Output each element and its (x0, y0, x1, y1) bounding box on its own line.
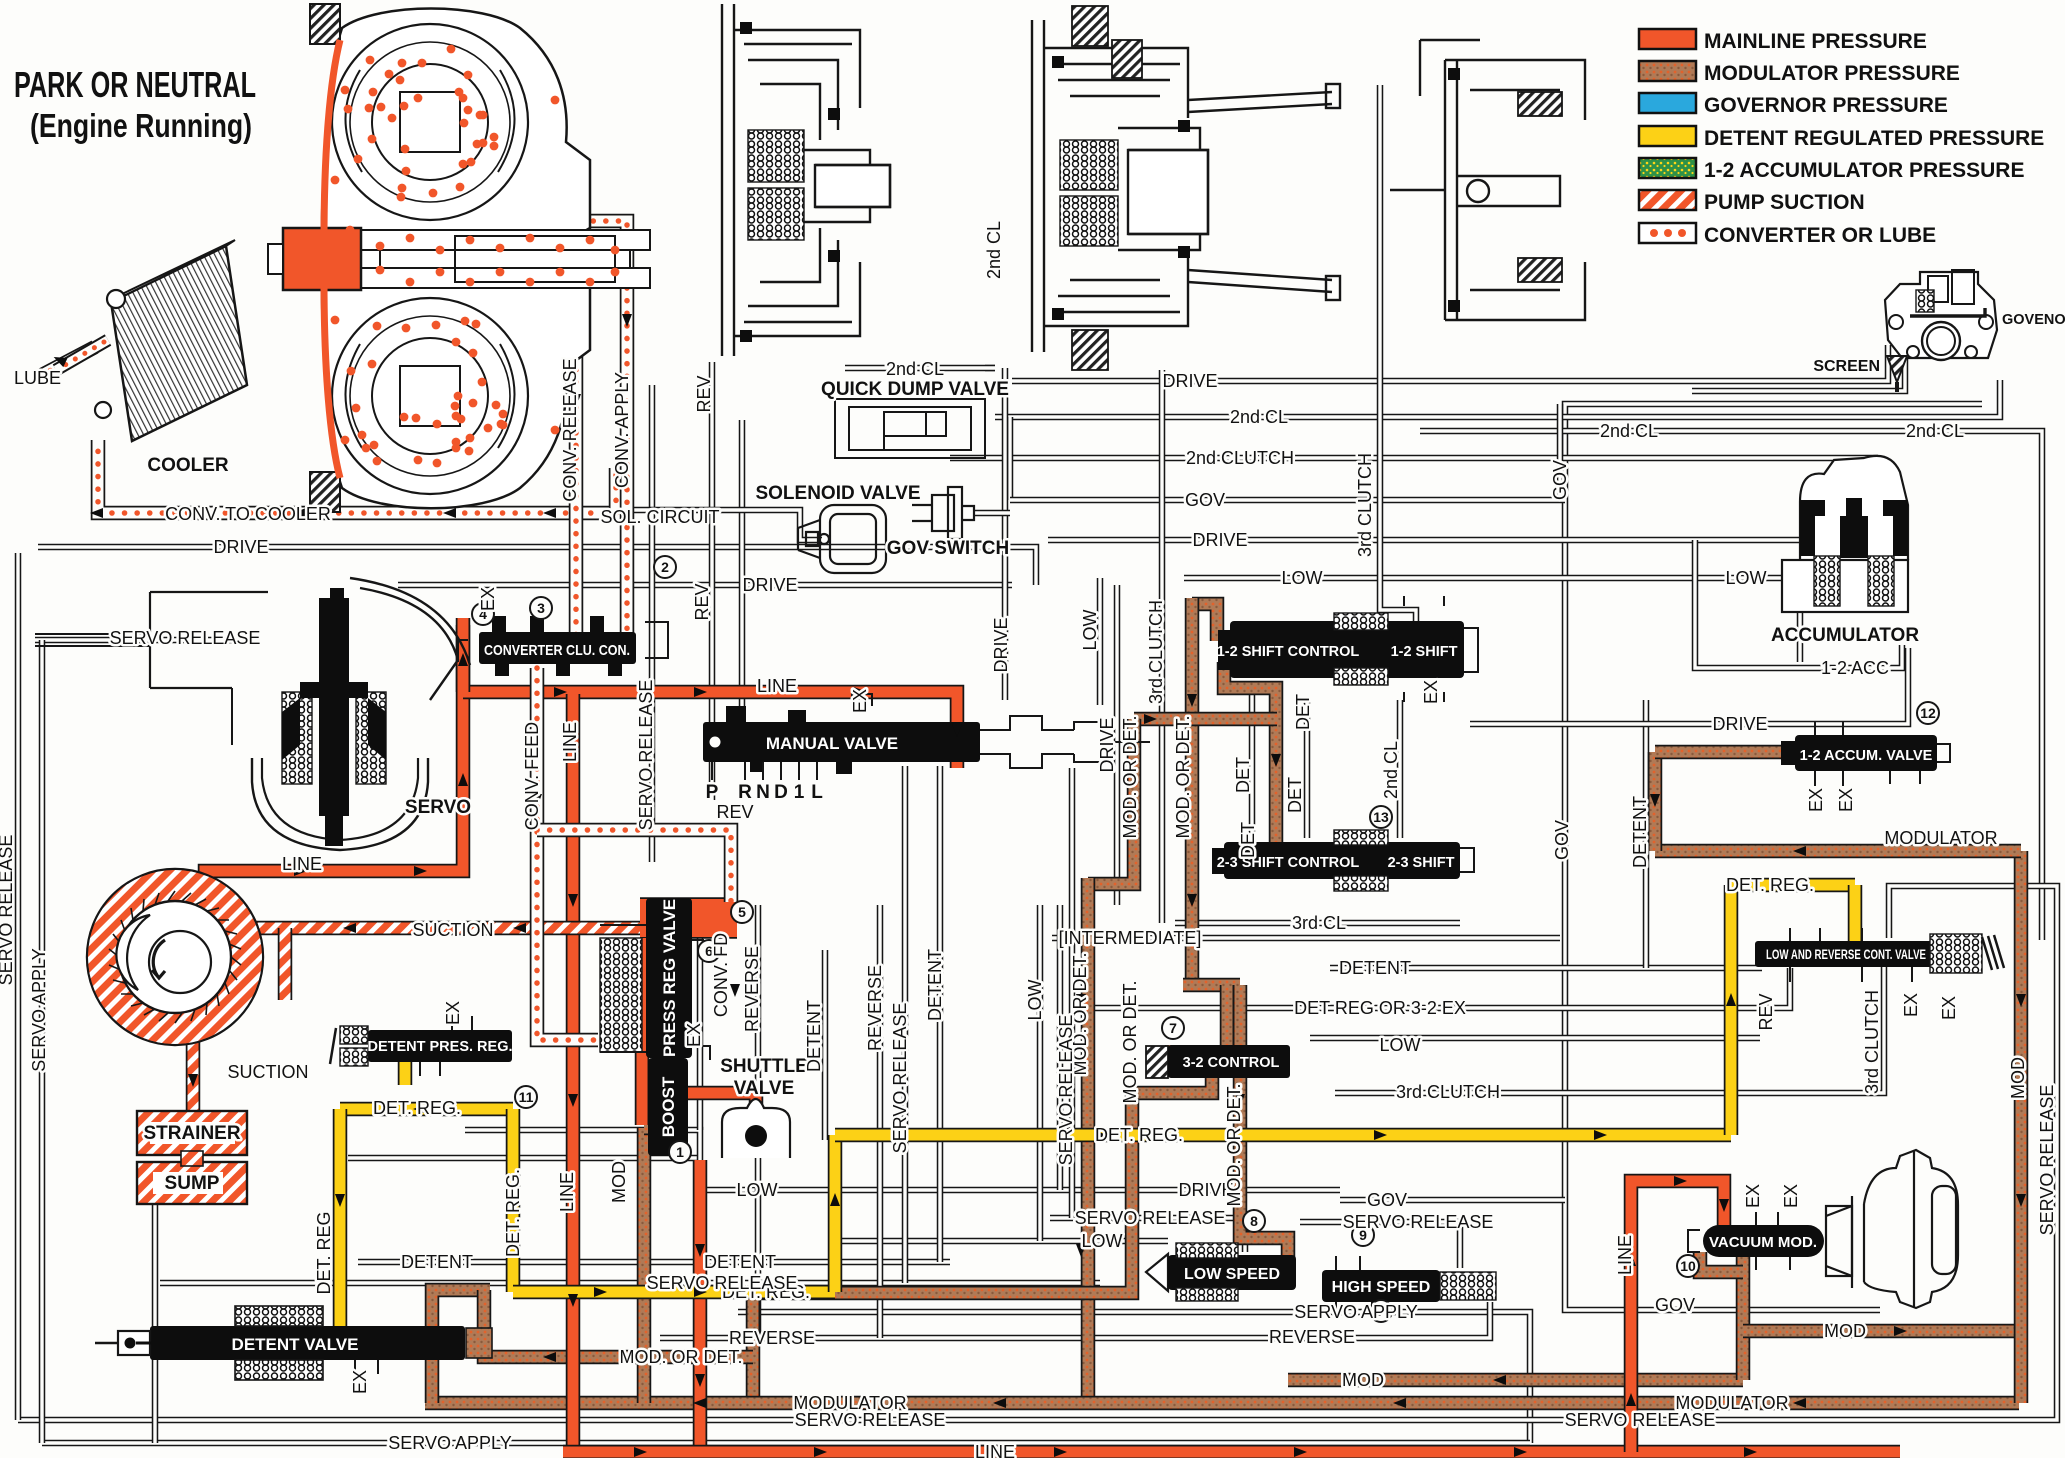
svg-text:LINE: LINE (560, 722, 580, 762)
svg-text:SUCTION: SUCTION (228, 1062, 309, 1082)
svg-text:GOV: GOV (1185, 490, 1225, 510)
wire INTERMEDIATE (1052, 935, 1560, 942)
legend swatch modulator (1639, 61, 1696, 81)
svg-text:REV: REV (1756, 993, 1776, 1030)
svg-text:1-2 SHIFT CONTROL: 1-2 SHIFT CONTROL (1217, 644, 1360, 660)
cooler radiator (56, 240, 247, 441)
wire DRIVE vert c (1114, 585, 1121, 905)
svg-text:REVERSE: REVERSE (865, 965, 885, 1051)
svg-text:SERVO: SERVO (405, 797, 471, 818)
svg-text:PARK OR NEUTRAL: PARK OR NEUTRAL (14, 64, 256, 105)
detent reg stub a (398, 1060, 413, 1085)
svg-text:DET: DET (1293, 694, 1313, 730)
svg-text:DETENT REGULATED PRESSURE: DETENT REGULATED PRESSURE (1704, 127, 2044, 150)
svg-text:LINE: LINE (757, 676, 797, 696)
mainline press reg left col (635, 938, 650, 1125)
svg-text:5: 5 (738, 904, 746, 920)
svg-text:MOD. OR DET.: MOD. OR DET. (1120, 715, 1140, 838)
svg-text:MAINLINE PRESSURE: MAINLINE PRESSURE (1704, 30, 1927, 53)
svg-text:2-3 SHIFT: 2-3 SHIFT (1388, 855, 1455, 871)
detent reg V3 (828, 1135, 843, 1292)
svg-text:SERVO RELEASE: SERVO RELEASE (1056, 1015, 1076, 1166)
title (14, 64, 256, 144)
svg-text:LINE: LINE (975, 1442, 1015, 1458)
svg-text:GOV SWITCH: GOV SWITCH (887, 538, 1009, 559)
svg-text:LOW: LOW (1379, 1035, 1420, 1055)
svg-text:MOD. OR DET.: MOD. OR DET. (1173, 715, 1193, 838)
detent reg big H (835, 1128, 1731, 1143)
svg-text:DETENT: DETENT (1630, 796, 1650, 868)
wire LOW row4 (838, 1238, 1168, 1245)
governor pressure switch (912, 487, 974, 539)
svg-text:12: 12 (1920, 705, 1936, 721)
svg-text:DET. REG.: DET. REG. (503, 1169, 523, 1257)
detent reg H1 (340, 1102, 513, 1117)
modulator top right H (1655, 844, 2021, 859)
circled port numbers (472, 556, 1939, 1322)
modulator boost drop (637, 1128, 652, 1403)
svg-text:GOVERNOR PRESSURE: GOVERNOR PRESSURE (1704, 94, 1948, 117)
svg-text:DRIVE: DRIVE (213, 537, 268, 557)
legend swatch pump suction (1639, 190, 1696, 210)
svg-text:HIGH SPEED: HIGH SPEED (1332, 1279, 1431, 1296)
wire manual to shuttle (697, 905, 704, 1130)
svg-text:LOW: LOW (736, 1180, 777, 1200)
wire SERVO RELEASE long left (160, 1280, 1100, 1287)
svg-text:DETENT: DETENT (804, 1000, 824, 1072)
svg-text:DRIVE: DRIVE (1712, 714, 1767, 734)
svg-text:DETENT VALVE: DETENT VALVE (232, 1335, 359, 1354)
svg-text:MODULATOR: MODULATOR (1884, 828, 1997, 848)
wire SERVO RELEASE right seg (1300, 1222, 1460, 1268)
wire quick dump to drive (985, 365, 995, 372)
legend swatch mainline (1639, 29, 1696, 49)
wire manual rev drop (755, 905, 762, 1338)
mainline right riser (1631, 1181, 1724, 1452)
svg-text:2nd CL: 2nd CL (1381, 741, 1401, 799)
wire SERVO APPLY bottom (42, 1440, 1530, 1447)
svg-text:LINE: LINE (557, 1172, 577, 1212)
low speed timing valve (1146, 1254, 1168, 1291)
wire sol circuit (620, 510, 822, 540)
svg-text:EX: EX (1939, 996, 1959, 1020)
svg-text:CONVERTER OR LUBE: CONVERTER OR LUBE (1704, 224, 1936, 247)
1-2 shift control + 1-2 shift valve (1230, 621, 1464, 678)
svg-text:PRESS REG VALVE: PRESS REG VALVE (660, 899, 679, 1057)
conv fd (537, 830, 731, 902)
wire DRIVE-LOW row3 (700, 1187, 1340, 1194)
manual valve (703, 722, 980, 762)
svg-text:1-2 ACCUM. VALVE: 1-2 ACCUM. VALVE (1800, 748, 1933, 764)
modulator MOD right short (1743, 1324, 2021, 1339)
svg-text:SERVO RELEASE: SERVO RELEASE (0, 835, 16, 986)
mainline around conv clu valve (456, 625, 471, 692)
suction main (240, 921, 640, 936)
governor (1885, 270, 1997, 360)
wire low-drive verts (1057, 905, 1064, 1190)
modulator H2 (1183, 978, 1240, 993)
svg-text:VALVE: VALVE (734, 1078, 795, 1099)
svg-text:CONVERTER CLU. CON.: CONVERTER CLU. CON. (484, 642, 630, 659)
wire GOV from governor (1565, 404, 1982, 1310)
svg-text:REVERSE: REVERSE (729, 1328, 815, 1348)
torque converter assembly (268, 4, 650, 512)
svg-text:GOV: GOV (1550, 460, 1570, 500)
svg-text:DET. REG.: DET. REG. (1095, 1125, 1183, 1145)
wire SERVO RELEASE left vert (15, 553, 22, 1420)
wire 2nd CL row2 (1420, 431, 2042, 940)
wire DETENT row (1330, 965, 1762, 972)
wire accumulator 1-2 ACC (1695, 540, 1902, 668)
wire DRIVE left long (38, 547, 1036, 585)
svg-text:SCREEN: SCREEN (1813, 358, 1880, 375)
svg-text:DET: DET (1238, 822, 1258, 858)
conv to cooler riser (609, 468, 624, 513)
svg-text:SERVO RELEASE: SERVO RELEASE (890, 1003, 910, 1154)
modulator boost stub (644, 1121, 688, 1136)
svg-text:MOD: MOD (609, 1161, 629, 1203)
conv release (505, 277, 576, 638)
svg-text:EX: EX (443, 1001, 463, 1025)
svg-text:13: 13 (1373, 809, 1389, 825)
svg-text:N: N (756, 782, 770, 803)
conv apply (505, 221, 627, 638)
svg-text:DETENT: DETENT (1339, 958, 1411, 978)
svg-text:CONV. APPLY: CONV. APPLY (612, 372, 632, 488)
wire REVERSE row (660, 1302, 1490, 1338)
modulator V1 (1185, 598, 1200, 985)
modulator vacuum left jog (1700, 1252, 1743, 1272)
wire DRIVE row mid (1048, 537, 1875, 544)
svg-text:QUICK DUMP VALVE: QUICK DUMP VALVE (821, 379, 1009, 400)
wire SERVO APPLY center (738, 1312, 1530, 1443)
svg-text:SUCTION: SUCTION (413, 920, 494, 940)
svg-text:MODULATOR: MODULATOR (1675, 1393, 1788, 1413)
mainline boost bottom to line (693, 1160, 708, 1452)
wire DETENT vert center (822, 950, 829, 1140)
svg-text:MOD. OR DET.: MOD. OR DET. (1120, 980, 1140, 1103)
mainline line vert mid (566, 694, 581, 1452)
modulator vacuum down (1736, 1257, 1751, 1380)
wire shuttle low2 (465, 1130, 700, 1190)
svg-text:REVERSE: REVERSE (742, 946, 762, 1032)
legend (1639, 29, 2044, 247)
svg-text:3rd CLUTCH: 3rd CLUTCH (1396, 1082, 1500, 1102)
svg-text:LOW: LOW (1281, 568, 1322, 588)
wire REV vert (709, 362, 716, 800)
svg-text:1-2 ACCUMULATOR PRESSURE: 1-2 ACCUMULATOR PRESSURE (1704, 159, 2024, 182)
svg-text:1-2 SHIFT: 1-2 SHIFT (1391, 644, 1458, 660)
svg-text:REVERSE: REVERSE (1269, 1327, 1355, 1347)
detent valve (150, 1326, 465, 1360)
svg-text:SERVO RELEASE: SERVO RELEASE (1565, 1410, 1716, 1430)
svg-text:GOVENOR: GOVENOR (2002, 312, 2065, 328)
svg-text:DETENT: DETENT (925, 949, 945, 1021)
svg-text:LOW: LOW (1080, 609, 1100, 650)
strainer (137, 1111, 247, 1155)
solenoid valve (798, 505, 886, 573)
wire 3rd CLUTCH vert (1159, 370, 1166, 923)
wire SERVO RELEASE left (35, 637, 252, 644)
mainline LINE to manual valve (463, 692, 957, 768)
svg-text:EX: EX (1421, 680, 1441, 704)
shuttle valve (722, 1099, 790, 1158)
svg-text:DET: DET (1233, 757, 1253, 793)
svg-text:REV: REV (716, 802, 753, 822)
wire LOW vert (1097, 578, 1104, 705)
svg-text:8: 8 (1250, 1213, 1258, 1229)
svg-text:2nd CL: 2nd CL (1906, 421, 1964, 441)
detent reg V4 (1724, 885, 1739, 1135)
legend swatch governor (1639, 93, 1696, 113)
detent reg V2 (506, 1109, 521, 1292)
svg-text:DET. REG.: DET. REG. (373, 1098, 461, 1118)
wire SERVO RELEASE row3 (1050, 1218, 1245, 1252)
svg-text:MANUAL VALVE: MANUAL VALVE (766, 734, 898, 753)
svg-text:SERVO RELEASE: SERVO RELEASE (647, 1273, 798, 1293)
detent reg H3 (1731, 878, 1855, 893)
svg-text:CONV. FEED: CONV. FEED (522, 722, 542, 830)
wire LOW row2 (1310, 1035, 1760, 1042)
converter clutch control valve (479, 632, 636, 664)
svg-text:EX: EX (478, 587, 498, 611)
svg-text:3rd CLUTCH: 3rd CLUTCH (1355, 453, 1375, 557)
svg-text:EX: EX (1901, 993, 1921, 1017)
svg-text:2nd CL: 2nd CL (1600, 421, 1658, 441)
svg-text:EX: EX (1806, 788, 1826, 812)
wire DET REG OR 3-2 EX (1095, 968, 1790, 1008)
svg-text:LOW: LOW (1025, 979, 1045, 1020)
wire servo release centre vert (1069, 768, 1076, 1218)
flow arrows (294, 866, 307, 876)
svg-text:DRIVE: DRIVE (991, 617, 1011, 672)
svg-text:DETENT: DETENT (704, 1252, 776, 1272)
svg-text:MOD. OR DET.: MOD. OR DET. (1224, 1083, 1244, 1206)
svg-text:LOW: LOW (1725, 568, 1766, 588)
conv to cooler (98, 440, 616, 513)
suction strainer (186, 1040, 201, 1115)
svg-text:SOL. CIRCUIT: SOL. CIRCUIT (600, 507, 719, 527)
svg-text:EX: EX (684, 1023, 704, 1047)
modulator 12sc out (1224, 662, 1276, 845)
legend swatch detent (1639, 126, 1696, 146)
svg-text:CONV. FD: CONV. FD (711, 933, 731, 1017)
svg-text:STRAINER: STRAINER (143, 1123, 240, 1144)
svg-text:PUMP SUCTION: PUMP SUCTION (1704, 191, 1865, 214)
svg-text:MOD: MOD (1342, 1370, 1384, 1390)
svg-text:SERVO RELEASE: SERVO RELEASE (795, 1410, 946, 1430)
svg-text:REV: REV (694, 375, 714, 412)
svg-text:1-2 ACC: 1-2 ACC (1821, 658, 1889, 678)
wire accumulator DRIVE (1470, 648, 1908, 724)
wire SERVO RELEASE bottom (18, 886, 2057, 1420)
wire 2nd CL vert 23 (1397, 700, 1404, 838)
legend swatch accumulator (1639, 158, 1696, 178)
svg-text:2nd CL: 2nd CL (886, 359, 944, 379)
svg-text:10: 10 (1680, 1258, 1696, 1274)
svg-text:1: 1 (676, 1144, 684, 1160)
modulator MODULATOR bottom (425, 1396, 2019, 1411)
svg-text:GOV: GOV (1552, 820, 1572, 860)
modulator stub 3-2 top (1220, 985, 1235, 1047)
clutch pack A (forward clutch) (722, 4, 890, 356)
wire reverse vert2 (877, 905, 884, 1338)
svg-text:3: 3 (537, 600, 545, 616)
svg-text:VACUUM MOD.: VACUUM MOD. (1709, 1234, 1817, 1251)
svg-text:DET: DET (1285, 777, 1305, 813)
detent pressure regulator valve (368, 1030, 512, 1062)
wire SERVO RELEASE vert mid (649, 385, 656, 862)
mainline press reg right elbow (688, 1093, 756, 1112)
wire gov switch lead (974, 510, 1010, 517)
boost valve (648, 1058, 688, 1156)
wire DRIVE vert clutchB (1002, 368, 1009, 700)
wire detent vert manual (937, 766, 944, 1262)
servo (35, 578, 470, 850)
2-3 shift control + 2-3 shift valve (1224, 842, 1460, 879)
svg-text:2nd CLUTCH: 2nd CLUTCH (1186, 448, 1294, 468)
modulator detent valve loop1 (432, 1290, 490, 1403)
3-2 control valve (1146, 1046, 1168, 1078)
modulator right riser (2014, 851, 2029, 1403)
wire reverse-servorelease vert (902, 766, 909, 1283)
modulator zigzag (1088, 719, 1134, 884)
svg-text:DET. REG.: DET. REG. (1726, 875, 1814, 895)
svg-text:MOD: MOD (2008, 1057, 2028, 1099)
wire low vert 4 (1037, 905, 1044, 1241)
svg-text:DRIVE: DRIVE (742, 575, 797, 595)
wire 2nd CLUTCH (950, 455, 1878, 462)
wire 3rd CLUTCH top vert (1380, 85, 1416, 621)
1-2 accumulator valve (1795, 735, 1937, 771)
mainline press reg top (640, 897, 737, 939)
wire DRIVE center (398, 582, 1012, 589)
svg-text:EX: EX (850, 689, 870, 713)
pressure regulator valve (vertical) (646, 898, 692, 1058)
svg-text:2nd CL: 2nd CL (1230, 407, 1288, 427)
wire DETENT left row (358, 1259, 950, 1266)
wire 2nd CL row1 (995, 380, 2000, 417)
wire REV vert2 (739, 420, 746, 718)
svg-text:2: 2 (661, 559, 669, 575)
svg-text:R: R (738, 782, 752, 803)
svg-text:LUBE: LUBE (14, 368, 61, 388)
legend swatch converter (1639, 223, 1696, 243)
modulator 32 down stair (753, 1077, 1212, 1403)
svg-text:DETENT PRES. REG.: DETENT PRES. REG. (367, 1039, 512, 1055)
svg-text:EX: EX (1781, 1184, 1801, 1208)
svg-text:SHUTTLE: SHUTTLE (720, 1056, 808, 1077)
wire DETENT vert right (1643, 700, 1650, 968)
svg-text:MOD. OR DET.: MOD. OR DET. (619, 1347, 742, 1367)
svg-text:MODULATOR: MODULATOR (793, 1393, 906, 1413)
modulator detent valve loop2 (484, 1290, 753, 1357)
wire 2nd CL top qdv (845, 365, 995, 372)
svg-text:LOW: LOW (1081, 1231, 1122, 1251)
svg-text:SERVO RELEASE: SERVO RELEASE (636, 680, 656, 831)
wire SERVO APPLY left vert (39, 640, 46, 1443)
wire DET vert 2 (1304, 700, 1311, 838)
svg-text:SERVO APPLY: SERVO APPLY (1294, 1302, 1417, 1322)
svg-text:7: 7 (1169, 1020, 1177, 1036)
detent reg H2 (513, 1285, 835, 1300)
modulator MOD right mid (1288, 1373, 1743, 1388)
svg-text:DET. REG: DET. REG (314, 1211, 334, 1294)
vacuum modulator capsule (1826, 1150, 1958, 1308)
svg-text:LOW AND REVERSE CONT. VALVE: LOW AND REVERSE CONT. VALVE (1766, 947, 1926, 962)
svg-text:(Engine Running): (Engine Running) (30, 107, 252, 144)
conv feed (537, 668, 598, 1040)
clutch pack D (3rd clutch) (1390, 40, 1585, 320)
svg-text:MODULATOR PRESSURE: MODULATOR PRESSURE (1704, 62, 1960, 85)
wire GOV row2 (1010, 497, 1565, 504)
modulator accum valve port (1655, 745, 1790, 760)
wire servo apply vert2 (152, 1190, 159, 1443)
svg-text:3rd CL: 3rd CL (1292, 913, 1346, 933)
detent reg V5 (1848, 885, 1863, 942)
svg-text:SERVO RELEASE: SERVO RELEASE (1075, 1208, 1226, 1228)
vacuum modulator valve (1703, 1225, 1824, 1257)
svg-text:SERVO APPLY: SERVO APPLY (29, 948, 49, 1071)
lube line (40, 347, 95, 376)
wire LOW row (1184, 578, 1800, 662)
svg-text:EX: EX (1836, 788, 1856, 812)
svg-text:3rd CLUTCH: 3rd CLUTCH (1862, 990, 1882, 1094)
svg-text:P: P (706, 782, 719, 803)
modulator accum valve feed (1648, 752, 1663, 851)
svg-text:D: D (774, 782, 788, 803)
sump (137, 1162, 247, 1204)
svg-text:REV: REV (692, 583, 712, 620)
detent reg V1 (333, 1109, 348, 1348)
svg-text:DETENT: DETENT (401, 1252, 473, 1272)
svg-text:SUMP: SUMP (165, 1173, 220, 1194)
quick dump valve (835, 399, 985, 458)
wire shuttle low (348, 1155, 700, 1162)
svg-text:1: 1 (794, 782, 805, 803)
mainline bottom LINE (563, 1445, 1900, 1458)
svg-text:DET REG OR 3-2 EX: DET REG OR 3-2 EX (1294, 998, 1466, 1018)
accumulator (1782, 456, 1908, 612)
high speed timing valve (1322, 1270, 1440, 1302)
svg-text:DRIVE: DRIVE (1097, 717, 1117, 772)
wire drive vert down right (1557, 404, 1564, 500)
wire GOV to high speed (1340, 1197, 1565, 1204)
wire 3rd CL row (1175, 920, 1460, 927)
modulator VC (1081, 878, 1096, 1398)
svg-text:[INTERMEDIATE]: [INTERMEDIATE] (1059, 928, 1202, 948)
svg-text:MOD: MOD (1824, 1321, 1866, 1341)
svg-text:COOLER: COOLER (147, 455, 229, 476)
modulator top loop (1192, 604, 1217, 641)
svg-text:CONV. TO COOLER: CONV. TO COOLER (165, 504, 331, 524)
svg-text:SERVO RELEASE: SERVO RELEASE (1343, 1212, 1494, 1232)
svg-text:2nd CL: 2nd CL (984, 221, 1004, 279)
oil pump (87, 869, 263, 1045)
svg-text:LOW SPEED: LOW SPEED (1184, 1266, 1280, 1283)
wire 3rd CLUTCH row2 (1335, 967, 1884, 1093)
svg-text:SERVO RELEASE: SERVO RELEASE (2037, 1085, 2057, 1236)
svg-text:SERVO RELEASE: SERVO RELEASE (110, 628, 261, 648)
modulator 32 hatch vert (1165, 1045, 1180, 1077)
svg-text:DRIVE: DRIVE (1162, 371, 1217, 391)
modulator H mid (1134, 712, 1277, 727)
svg-text:ACCUMULATOR: ACCUMULATOR (1771, 625, 1919, 646)
svg-text:BOOST: BOOST (659, 1076, 678, 1137)
modulator VE (1240, 985, 1288, 1258)
wire governor feed 2 (1692, 350, 1905, 391)
svg-text:SERVO APPLY: SERVO APPLY (388, 1433, 511, 1453)
